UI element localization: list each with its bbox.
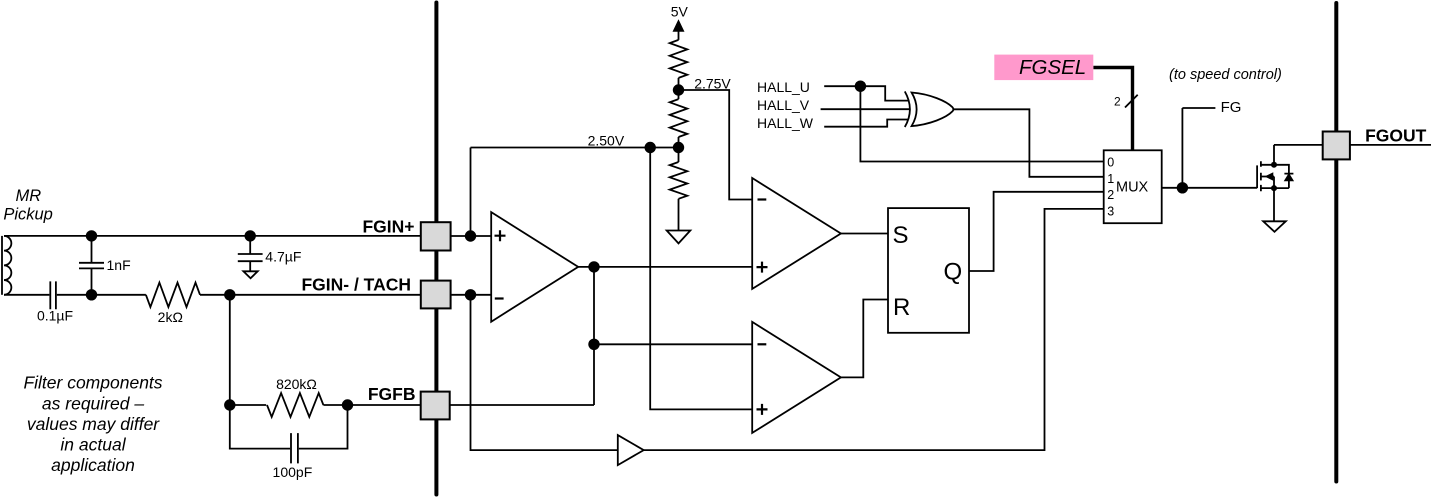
svg-text:FGFB: FGFB	[368, 384, 416, 404]
svg-text:1: 1	[1107, 172, 1114, 186]
svg-text:FGOUT: FGOUT	[1365, 126, 1427, 146]
svg-text:5V: 5V	[671, 4, 689, 20]
svg-text:0.1µF: 0.1µF	[37, 308, 73, 324]
svg-text:0: 0	[1107, 155, 1114, 169]
svg-text:3: 3	[1107, 204, 1114, 218]
svg-text:100pF: 100pF	[273, 464, 313, 480]
svg-text:as required –: as required –	[42, 393, 144, 413]
svg-text:values may differ: values may differ	[27, 414, 160, 434]
svg-text:2: 2	[1107, 188, 1114, 202]
svg-text:2kΩ: 2kΩ	[158, 309, 183, 325]
svg-text:2: 2	[1114, 95, 1121, 109]
svg-text:application: application	[51, 455, 135, 475]
svg-text:in actual: in actual	[60, 435, 126, 455]
svg-text:HALL_U: HALL_U	[757, 79, 810, 95]
svg-text:FGSEL: FGSEL	[1019, 56, 1086, 79]
svg-text:Filter components: Filter components	[23, 373, 162, 393]
svg-text:4.7µF: 4.7µF	[265, 249, 301, 265]
svg-text:Q: Q	[944, 258, 963, 285]
svg-text:FGIN- / TACH: FGIN- / TACH	[301, 275, 411, 295]
svg-text:FGIN+: FGIN+	[362, 217, 414, 237]
svg-text:820kΩ: 820kΩ	[276, 376, 317, 392]
svg-text:R: R	[893, 294, 910, 321]
svg-text:MUX: MUX	[1116, 180, 1149, 196]
svg-text:1nF: 1nF	[107, 257, 131, 273]
svg-text:2.50V: 2.50V	[588, 133, 625, 149]
svg-text:MR: MR	[15, 187, 41, 205]
svg-text:2.75V: 2.75V	[694, 76, 731, 92]
svg-text:S: S	[893, 222, 909, 249]
svg-text:(to speed control): (to speed control)	[1169, 67, 1282, 83]
svg-text:HALL_V: HALL_V	[757, 97, 810, 113]
svg-text:Pickup: Pickup	[3, 206, 53, 224]
svg-text:HALL_W: HALL_W	[757, 115, 814, 131]
svg-text:FG: FG	[1221, 99, 1242, 116]
